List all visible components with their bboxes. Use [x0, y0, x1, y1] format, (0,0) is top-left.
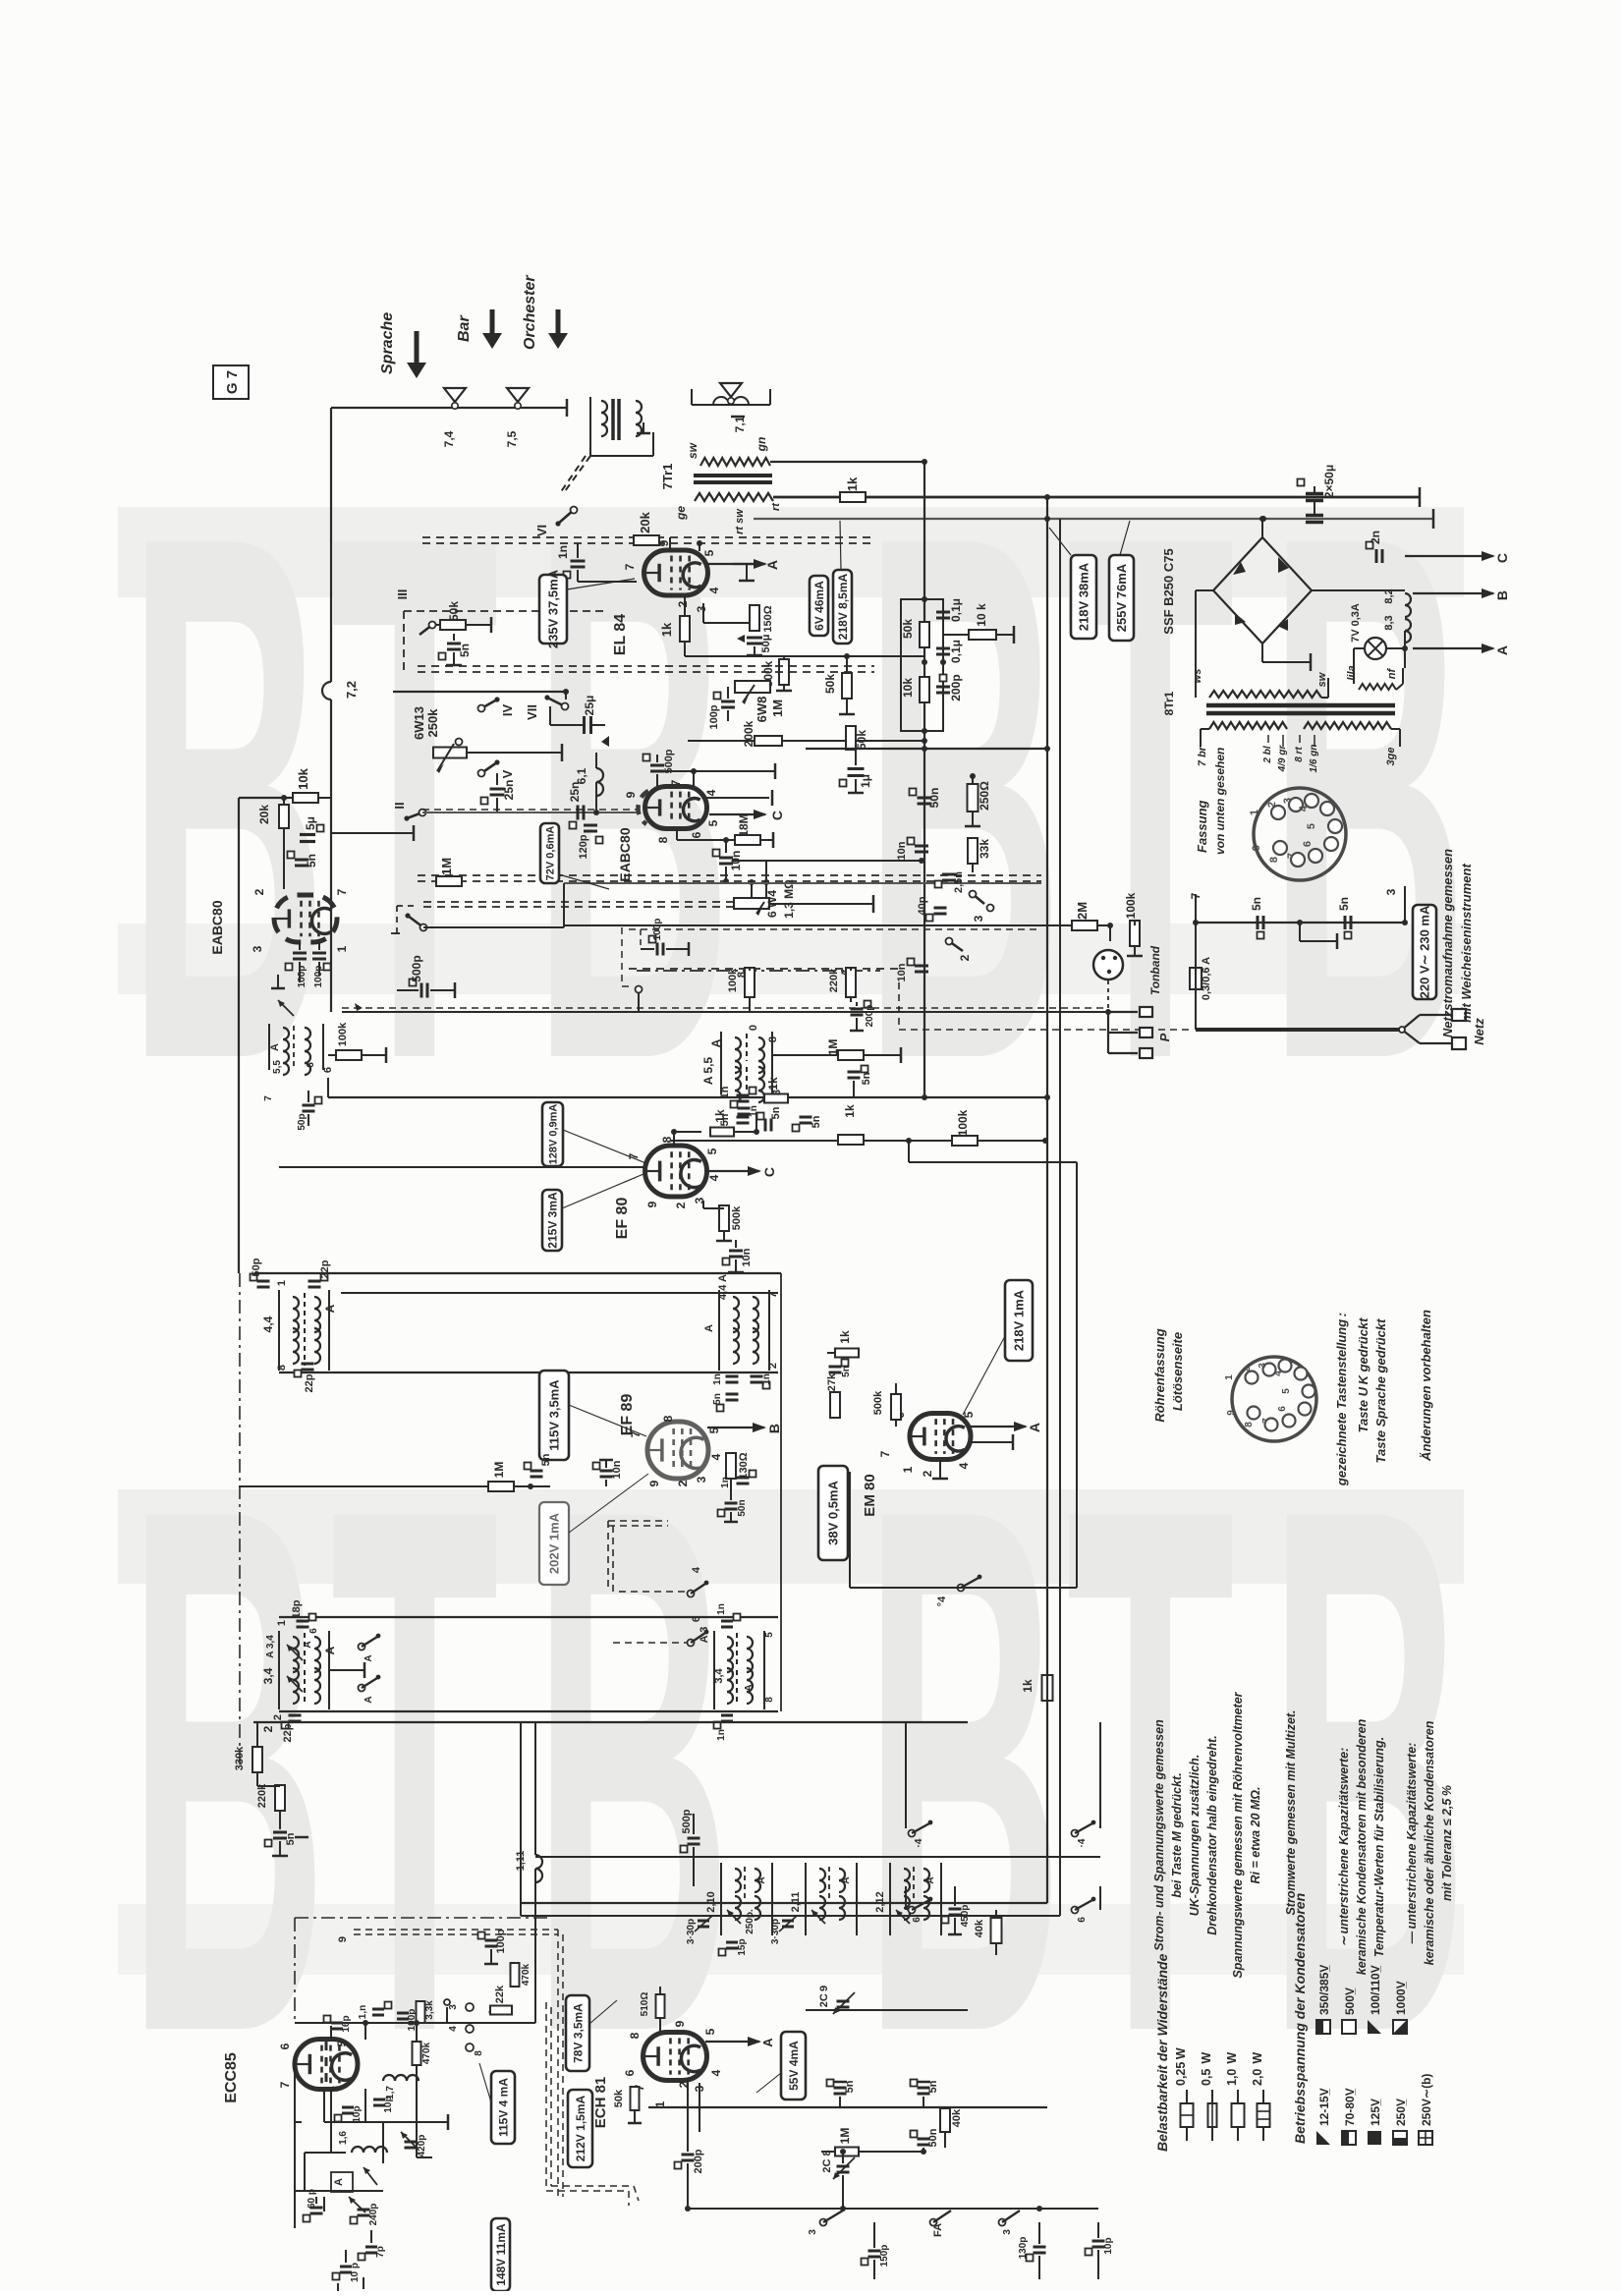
svg-text:10n: 10n [896, 841, 908, 860]
wire pin7 top [652, 763, 775, 787]
svg-text:2: 2 [676, 600, 690, 607]
wire y668 row [685, 655, 924, 657]
bottom rails [521, 1722, 1060, 1916]
resistor 1k det [764, 1077, 788, 1102]
cap 10n EF89 grid [531, 1460, 623, 1486]
wire dashed from antenna box to switch VI [560, 456, 590, 493]
svg-text:VII: VII [525, 704, 539, 720]
svg-text:2: 2 [1242, 1367, 1253, 1372]
switch row osc2 [906, 1857, 1100, 1923]
svg-text:4: 4 [704, 789, 718, 796]
svg-text:5,5: 5,5 [272, 1060, 283, 1074]
svg-text:50k: 50k [823, 674, 837, 694]
svg-text:4: 4 [691, 1566, 702, 1573]
svg-text:4: 4 [709, 1453, 723, 1460]
psu ground stub [1297, 920, 1337, 949]
svg-text:G 7: G 7 [224, 370, 241, 394]
svg-text:5: 5 [1281, 1388, 1292, 1394]
svg-text:7: 7 [669, 779, 683, 786]
dash-dot boundary x244 [239, 1273, 241, 1768]
wire y876 right [766, 860, 922, 862]
legend Belastbarkeit title [1154, 1953, 1170, 2152]
svg-text:5n: 5n [841, 1366, 852, 1377]
svg-text:6V 46mA: 6V 46mA [812, 581, 826, 631]
svg-text:4: 4 [448, 2026, 459, 2032]
svg-text:100p: 100p [495, 1929, 507, 1953]
svg-text:50k: 50k [447, 601, 461, 621]
svg-text:3: 3 [695, 605, 708, 612]
cap 2,5n [935, 871, 966, 893]
svg-text:125V̲: 125V̲ [1369, 2099, 1382, 2126]
connector P [1105, 980, 1172, 1058]
box 115V 4mA [479, 2063, 515, 2144]
svg-text:2: 2 [674, 1202, 688, 1208]
svg-text:6: 6 [306, 1062, 316, 1068]
resistor 100k agc2 [727, 968, 755, 1012]
bridge right outputs [1312, 589, 1405, 591]
box 38V 0,5mA [818, 1466, 848, 1560]
svg-text:5n: 5n [861, 1072, 872, 1085]
svg-text:1k: 1k [1021, 1679, 1035, 1693]
resistor 100k tape [1110, 892, 1143, 956]
label EM80 [862, 1474, 878, 1516]
svg-text:2M: 2M [1075, 902, 1090, 920]
svg-text:3,4: 3,4 [261, 1667, 275, 1684]
caption Netzstromaufnahme [1440, 849, 1474, 1037]
legend res 0,5W [1200, 2052, 1217, 2141]
cap 60p [304, 2189, 323, 2222]
caption Strom und Spannung [1152, 1719, 1219, 1951]
svg-text:40k: 40k [951, 2108, 963, 2127]
svg-text:1: 1 [276, 1620, 288, 1626]
svg-text:250p.: 250p. [745, 1909, 755, 1934]
svg-text:A: A [364, 1696, 374, 1703]
pins ECC85 [278, 2040, 349, 2092]
svg-text:22p: 22p [304, 1373, 315, 1392]
dashed drop x633 [622, 927, 634, 986]
svg-text:7,4: 7,4 [442, 430, 456, 447]
cap 5n III box [439, 634, 473, 665]
svg-text:420p: 420p [417, 2135, 427, 2157]
elco 5u [300, 798, 324, 842]
cap 16p [324, 2015, 353, 2032]
cap 500p det [397, 955, 455, 998]
svg-text:mit Toleranz ≤ 2,5 %: mit Toleranz ≤ 2,5 % [1440, 1785, 1454, 1901]
dashed pair y891 [418, 875, 1041, 881]
cap 200p divider [936, 662, 963, 731]
transformer 8Tr1 primary [1209, 722, 1391, 729]
IF cluster A44 right [703, 1274, 779, 1371]
svg-text:500k: 500k [731, 1205, 743, 1230]
box 6V 46mA [810, 576, 828, 636]
svg-text:500k: 500k [872, 1390, 884, 1415]
svg-text:2: 2 [767, 1363, 779, 1369]
svg-text:500p: 500p [410, 955, 423, 981]
switch 6 row [613, 1616, 708, 1647]
svg-text:5n: 5n [1337, 897, 1351, 911]
box 212V 1,5mA [568, 2090, 592, 2167]
svg-text:510Ω: 510Ω [640, 1992, 650, 2017]
svg-text:3: 3 [251, 945, 264, 952]
pins ECH81 [623, 2020, 723, 2107]
trimmer ratio [278, 1000, 294, 1016]
svg-text:5n: 5n [770, 1106, 782, 1119]
ground mid A3 [329, 1662, 364, 1678]
svg-text:9: 9 [647, 1480, 661, 1486]
heater winding right [1346, 648, 1403, 690]
svg-text:100p: 100p [652, 919, 663, 941]
svg-text:6: 6 [278, 2043, 292, 2049]
resistor 50k ech [613, 2087, 642, 2123]
label ECC85 [223, 2052, 240, 2103]
cap 10n EF80 [723, 1240, 754, 1272]
svg-text:3: 3 [972, 915, 985, 922]
svg-text:9: 9 [624, 791, 638, 798]
cap 5n det2 [793, 1115, 823, 1131]
svg-text:lila: lila [1346, 665, 1358, 680]
svg-text:8,2: 8,2 [1383, 588, 1395, 603]
svg-text:470k: 470k [421, 2042, 432, 2064]
svg-text:220k: 220k [828, 968, 840, 992]
svg-text:A: A [1027, 1423, 1042, 1432]
switch o4 [936, 1575, 981, 1607]
svg-text:ECC85: ECC85 [223, 2052, 240, 2103]
svg-text:rt sw: rt sw [734, 508, 746, 534]
svg-text:1: 1 [1249, 810, 1260, 815]
svg-text:40k: 40k [974, 1919, 985, 1937]
svg-text:Strom- und Spannungswerte geme: Strom- und Spannungswerte gemessen [1152, 1719, 1166, 1951]
cap 5n ratio [288, 852, 319, 868]
svg-text:2n: 2n [1369, 531, 1382, 544]
wire pot top link [732, 861, 769, 898]
svg-text:Orchester: Orchester [522, 275, 538, 350]
switch FA2 [930, 2211, 952, 2237]
svg-text:7: 7 [263, 1095, 274, 1101]
arrow B psu [1413, 588, 1510, 600]
wire y1160 long [670, 1140, 1045, 1142]
transformer 7Tr1 primary winding [674, 493, 782, 534]
junction y754 [922, 738, 927, 744]
cap 5n EM80 [829, 1360, 853, 1377]
pot 6W13 250k [412, 706, 467, 773]
svg-text:ECH 81: ECH 81 [592, 2077, 609, 2129]
coil 6,1 [575, 753, 603, 815]
svg-text:A: A [303, 1641, 313, 1648]
svg-text:— unterstrichene Kapazitätswer: — unterstrichene Kapazitätswerte: [1405, 1743, 1419, 1945]
dashed pair vhf [337, 1930, 563, 2197]
svg-text:200p: 200p [693, 2149, 704, 2173]
svg-text:3: 3 [808, 2229, 818, 2235]
osc coils 2,11 [790, 1863, 857, 1935]
svg-text:T: T [330, 380, 499, 1215]
wire x795 vertical [780, 1273, 782, 1711]
solid y898 row [564, 882, 1041, 884]
pilot lamp [1350, 603, 1408, 659]
svg-text:6: 6 [1302, 841, 1314, 847]
svg-text:250k: 250k [425, 708, 440, 738]
ground stub below arrow A [739, 564, 755, 581]
svg-text:6: 6 [1077, 1917, 1088, 1923]
svg-text:7Tr1: 7Tr1 [660, 464, 675, 490]
resistor 3,3k [417, 2000, 436, 2023]
svg-text:7: 7 [623, 563, 637, 570]
cap 240p [349, 2197, 379, 2225]
wire y1296 row [254, 1272, 781, 1274]
svg-text:4: 4 [709, 2069, 723, 2076]
svg-text:212V 1,5mA: 212V 1,5mA [574, 2095, 587, 2161]
svg-text:V: V [500, 769, 515, 778]
svg-text:C: C [761, 1167, 777, 1177]
svg-text:4,4 A: 4,4 A [717, 1274, 729, 1300]
line II row y827 [422, 810, 639, 812]
resistor 220k [256, 1783, 285, 1829]
pins EABC80 det [251, 888, 349, 952]
resistor 50k feedback [846, 726, 868, 750]
svg-text:1,7: 1,7 [385, 2086, 396, 2100]
transformer 7Tr1 core [694, 476, 772, 482]
svg-text:EF 89: EF 89 [619, 1394, 636, 1436]
svg-text:9: 9 [337, 1936, 349, 1942]
svg-text:1000V̲: 1000V̲ [1394, 1981, 1408, 2015]
choke 8,2 8,3 [1383, 588, 1411, 668]
box 55V 4mA [756, 2032, 806, 2100]
svg-text:9: 9 [645, 1201, 659, 1207]
cap 0,1u upper [924, 598, 963, 635]
svg-text:2,0 W: 2,0 W [1251, 2052, 1264, 2086]
resistor 1k bottom [1021, 1675, 1053, 1701]
svg-text:0: 0 [748, 1025, 759, 1031]
cap 50p ratio [297, 1091, 322, 1131]
svg-text:5n: 5n [712, 1393, 723, 1405]
cap 200p ech [675, 2149, 705, 2209]
resistor 500k [761, 656, 792, 691]
svg-text:5n: 5n [285, 1832, 297, 1845]
resistor 1k EM80 [827, 1330, 859, 1357]
svg-text:470k: 470k [521, 1963, 531, 1986]
resistor 2M [1072, 902, 1113, 930]
svg-text:1: 1 [276, 1280, 288, 1286]
legend cap col2 [1316, 1965, 1408, 2034]
svg-text:EABC80: EABC80 [617, 827, 633, 881]
cap 5n psu2 [1337, 897, 1352, 939]
wire y1116 long [328, 1078, 1050, 1100]
wire fa row [688, 2209, 823, 2222]
svg-text:130Ω: 130Ω [738, 1452, 750, 1479]
svg-text:Betriebsspannung der Kondensat: Betriebsspannung der Kondensatoren [1292, 1893, 1308, 2144]
coil 1,7 [383, 2075, 419, 2100]
tube EL84 [644, 550, 708, 595]
Sprache input arrow [379, 312, 426, 378]
cathode network 150R 50u [703, 603, 774, 655]
svg-text:255V 76mA: 255V 76mA [1114, 563, 1129, 632]
svg-text:0,5 W: 0,5 W [1200, 2052, 1213, 2086]
resistor 130R EF89 [726, 1451, 750, 1485]
transformer 8Tr1 core [1206, 705, 1395, 713]
resistor 50k left [823, 653, 855, 714]
cap 5n psu1 [1250, 897, 1264, 939]
svg-text:25n: 25n [502, 780, 516, 801]
svg-text:2: 2 [261, 1725, 275, 1732]
cap 25n V [481, 773, 517, 812]
svg-text:9: 9 [673, 2020, 687, 2027]
wires ecc85 extra [295, 1999, 450, 2291]
cap 0,1u lower [922, 640, 963, 665]
arrow C psu [1405, 551, 1510, 590]
svg-text:220 V∼ 230 mA: 220 V∼ 230 mA [1418, 905, 1432, 998]
svg-text:200k: 200k [742, 720, 755, 747]
wire y1742 row [279, 1710, 778, 1712]
arrow B EF89 [707, 1423, 782, 1433]
svg-text:7,5: 7,5 [505, 430, 519, 447]
fuse 0,3/0,6A [1190, 923, 1212, 1000]
resistor 200k [688, 720, 924, 747]
svg-text:6W8: 6W8 [755, 697, 769, 723]
pins EM80 [878, 1411, 976, 1477]
resistor 100k mid [952, 1109, 978, 1146]
cap 50n [910, 788, 942, 809]
svg-text:9: 9 [1226, 1410, 1237, 1416]
svg-text:Änderungen vorbehalten: Änderungen vorbehalten [1419, 1310, 1433, 1462]
bridge left wire [1196, 590, 1213, 676]
cap 100p tone [708, 687, 735, 730]
8Tr1 tap labels [1197, 735, 1397, 772]
svg-text:50n: 50n [737, 1499, 748, 1516]
transformer 7Tr1 secondary winding [686, 437, 770, 466]
wire grid row y1160 [669, 1140, 671, 1146]
svg-text:22k: 22k [494, 1985, 506, 2003]
agc line to EF89 [531, 1486, 593, 1513]
svg-text:A: A [1494, 645, 1510, 655]
wire EL84 anode to A arrow [706, 559, 780, 570]
svg-text:250V̲: 250V̲ [1394, 2099, 1408, 2126]
label ECH81 [592, 2077, 609, 2129]
svg-text:7p: 7p [375, 2246, 386, 2258]
switch 3 mid [970, 891, 994, 923]
resistor 1M demod [772, 1039, 901, 1063]
resistor 27k [826, 1372, 840, 1418]
svg-text:rt: rt [770, 502, 782, 511]
resistor 40k ech [940, 2107, 963, 2148]
trimmer arrows A3 [265, 1635, 313, 1692]
wire y704 row [393, 689, 569, 700]
svg-text:3: 3 [695, 1476, 708, 1483]
pins EF89 [629, 1415, 723, 1486]
cap 10p osc [333, 2263, 362, 2282]
svg-text:100k: 100k [337, 1022, 349, 1046]
label EL84 [612, 614, 629, 656]
svg-text:8 rt: 8 rt [1294, 747, 1305, 762]
svg-text:3: 3 [771, 1090, 783, 1095]
antenna socket 7,4 [442, 388, 466, 447]
cap 22p IF2 [295, 1364, 316, 1392]
legend res 2,0W [1251, 2052, 1270, 2141]
resistor 1M ech [821, 2128, 923, 2156]
svg-text:10n: 10n [611, 1460, 623, 1479]
resistor 220k agc [828, 968, 856, 1002]
svg-text:3: 3 [1282, 798, 1294, 804]
caption Aenderungen [1419, 1310, 1433, 1462]
wire y1646 row [279, 1616, 778, 1618]
switch III lever [419, 622, 436, 636]
svg-text:4: 4 [707, 587, 721, 593]
resistor 22k [490, 1985, 512, 2015]
wire VII to 25u [550, 706, 565, 725]
svg-text:8: 8 [276, 1365, 288, 1371]
switch II [392, 802, 426, 820]
wire pin8 down [676, 829, 678, 840]
svg-text:8Tr1: 8Tr1 [1162, 691, 1176, 715]
svg-text:°4: °4 [936, 1596, 948, 1606]
cap 22p IF1 [308, 1260, 332, 1287]
psu bottom wire [1189, 886, 1408, 925]
resistor 1M agc [436, 858, 462, 886]
svg-text:7: 7 [335, 888, 349, 895]
socket pins [1249, 794, 1342, 867]
svg-text:8: 8 [656, 836, 670, 843]
resistor 18M [677, 813, 773, 848]
svg-text:1M: 1M [838, 2128, 852, 2145]
svg-text:250Ω: 250Ω [978, 781, 991, 811]
resistor 1k demod [838, 1104, 864, 1145]
tube EABC80 det [274, 895, 337, 942]
resistor 330k [234, 1722, 262, 1786]
cap 5n vhf [265, 1832, 309, 1856]
osc coils 2,10 [705, 1863, 772, 1935]
svg-text:Taste U K gedrückt: Taste U K gedrückt [1356, 1317, 1370, 1433]
svg-text:5μ: 5μ [304, 816, 317, 830]
box 220V 230mA [1413, 905, 1436, 999]
svg-text:16p: 16p [341, 2015, 352, 2032]
arrow C EF80 [705, 1166, 777, 1177]
box 148V 11mA [491, 2218, 510, 2291]
svg-text:50p: 50p [251, 1258, 262, 1276]
cap 2C8 var [821, 2149, 855, 2209]
svg-text:8: 8 [661, 1415, 675, 1422]
svg-text:100k: 100k [727, 968, 739, 992]
svg-text:4: 4 [957, 1462, 971, 1469]
wire 2M to tonband [1109, 925, 1111, 941]
tube EM80 [910, 1414, 971, 1460]
svg-text:1M: 1M [439, 858, 454, 875]
svg-text:218V 8,5mA: 218V 8,5mA [836, 573, 850, 640]
dashed pair y918 [423, 902, 734, 907]
8Tr1 label [1162, 691, 1176, 715]
wire y1316 row [341, 1292, 778, 1294]
caps 100p 100p det [286, 942, 331, 987]
svg-text:6,1: 6,1 [575, 767, 588, 784]
resistor 1k cathode EL84 [659, 616, 690, 642]
bridge bottom ground [1262, 644, 1311, 671]
svg-text:5: 5 [705, 1148, 719, 1154]
IF cluster A44 left [261, 1280, 337, 1371]
bridge rectifier SSF B250 C75 [1161, 537, 1312, 644]
dash-dot vhf box top [295, 1918, 550, 2024]
socket 2 pins [1224, 1360, 1315, 1431]
DIN socket Tonband [1093, 945, 1162, 995]
svg-text:4/9 gr: 4/9 gr [1277, 745, 1288, 773]
arrow A ECH81 [705, 2037, 775, 2047]
svg-text:B: B [864, 380, 1063, 1215]
svg-text:7V 0,3A: 7V 0,3A [1350, 603, 1362, 643]
antenna symbol above transformer [720, 383, 742, 404]
capacitor 1n grid EL84 [556, 543, 637, 582]
svg-text:3,4: 3,4 [713, 1667, 725, 1683]
switch IV [478, 697, 516, 716]
box A osc [331, 2167, 377, 2192]
svg-text:Belastbarkeit der Widerstände: Belastbarkeit der Widerstände [1154, 1953, 1170, 2152]
cap 1n 5n IF [731, 1097, 760, 1117]
resistor 500k EM80 [872, 1383, 901, 1427]
